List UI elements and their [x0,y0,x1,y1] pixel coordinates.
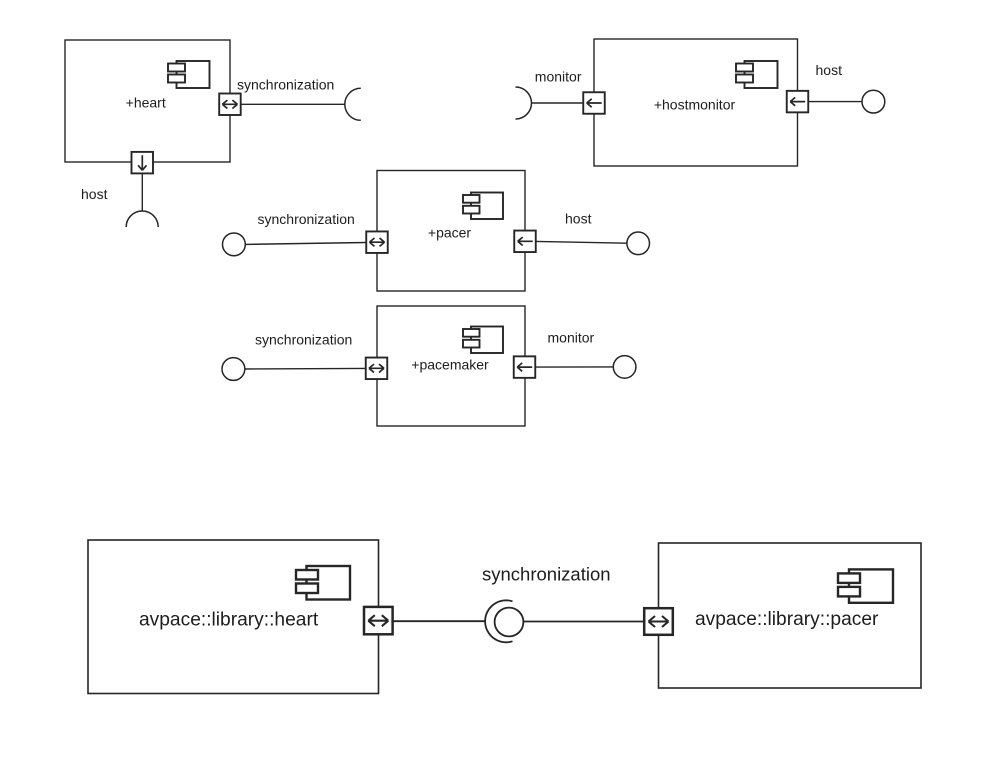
label avpace::library::pacer [695,609,879,630]
wire heart-side assembly [393,620,486,622]
label +pacemaker [411,356,489,372]
port monitor on +hostmonitor (left) [583,92,605,114]
wire hostmonitor monitor [532,102,584,104]
svg-text:+pacer: +pacer [428,224,472,240]
svg-text:synchronization: synchronization [255,332,352,348]
svg-text:synchronization: synchronization [482,564,611,585]
label host (hostmonitor) [816,62,843,78]
component box +pacer [377,171,525,292]
svg-text:monitor: monitor [535,68,582,84]
socket synchronization (heart) [345,88,361,120]
component box +hostmonitor [594,39,798,166]
port synchronization on +heart [219,94,241,116]
port synchronization on avpace::library::pacer [644,608,673,635]
port synchronization on +pacemaker (left) [366,358,388,380]
label avpace::library::heart [139,610,319,631]
label monitor (hostmonitor) [535,68,582,84]
wire heart host [141,174,143,212]
ball host (pacer) [627,232,650,255]
svg-text:monitor: monitor [548,329,595,345]
ball monitor (pacemaker) [613,356,636,379]
label host (pacer) [565,210,592,226]
label synchronization (heart) [237,77,334,93]
ball synchronization (pacemaker) [222,358,245,381]
svg-text:synchronization: synchronization [258,211,355,227]
ball host (hostmonitor) [862,90,885,113]
ball of assembly connector [495,608,524,637]
label +hostmonitor [654,96,736,112]
label synchronization (assembly) [482,564,611,585]
label synchronization (pacer) [258,211,355,227]
component box avpace::library::pacer [659,543,922,688]
svg-text:+heart: +heart [126,95,166,111]
port host on +pacer (right) [514,231,536,253]
socket host (heart) [126,211,158,227]
port host on +heart (bottom) [132,152,154,174]
component icon +pacer [463,193,503,220]
component icon +heart [168,61,210,88]
component icon avpace::library::pacer [838,569,893,602]
svg-text:host: host [816,62,843,78]
label +heart [126,95,166,111]
svg-text:host: host [81,186,108,202]
svg-text:+hostmonitor: +hostmonitor [654,96,736,112]
label +pacer [428,224,472,240]
port synchronization on +pacer (left) [366,231,388,253]
label monitor (pacemaker) [548,329,595,345]
wire pacer host [536,241,627,243]
port synchronization on avpace::library::heart [364,607,393,634]
component icon avpace::library::heart [296,566,350,600]
component icon +pacemaker [463,327,503,354]
wire pacer synchronization [245,243,366,245]
svg-text:host: host [565,210,592,226]
socket of assembly connector [485,600,512,642]
component box avpace::library::heart [88,540,379,694]
component icon +hostmonitor [736,61,778,88]
wire hostmonitor host [808,101,862,103]
svg-text:+pacemaker: +pacemaker [411,356,489,372]
svg-text:avpace::library::heart: avpace::library::heart [139,610,319,631]
wire pacemaker synchronization [245,367,366,370]
component box +pacemaker [377,306,525,426]
wire pacemaker monitor [535,366,613,368]
component box +heart [65,40,230,162]
label host (heart) [81,186,108,202]
wire pacer-side assembly [524,621,645,623]
socket monitor (hostmonitor) [516,87,532,119]
svg-text:synchronization: synchronization [237,77,334,93]
wire heart synchronization [241,103,345,105]
ball synchronization (pacer) [223,233,246,256]
port monitor on +pacemaker (right) [514,356,536,378]
svg-text:avpace::library::pacer: avpace::library::pacer [695,609,879,630]
label synchronization (pacemaker) [255,332,352,348]
port host on +hostmonitor (right) [787,91,809,113]
